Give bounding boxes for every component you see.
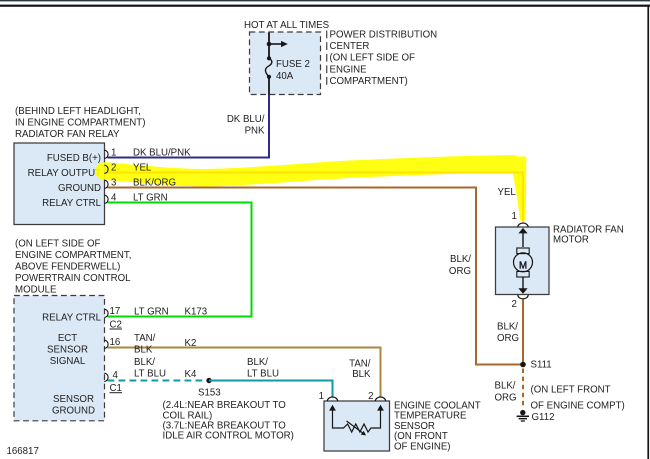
label: S153 breakout note <box>163 400 294 442</box>
svg-text:HOT AT ALL TIMES: HOT AT ALL TIMES <box>244 20 330 31</box>
svg-text:3: 3 <box>111 178 116 189</box>
svg-text:16: 16 <box>110 337 121 348</box>
arrow: feed to other circuits <box>269 41 288 47</box>
label: BLK/ ORG below S111 <box>495 380 517 403</box>
svg-text:FUSE 2: FUSE 2 <box>276 59 310 70</box>
pin 17 of PCM with connector C2 <box>104 306 122 330</box>
svg-text:K2: K2 <box>185 338 197 349</box>
wire: TAN/BLK from PCM pin 16 to ECT sensor pin 2 <box>108 348 381 398</box>
pin 1 of fan motor <box>512 211 529 227</box>
label: RADIATOR FAN MOTOR <box>553 224 624 245</box>
wire: battery feed inside PDC (black) <box>268 33 270 59</box>
label: BLK/ LT BLU right of S153 <box>247 357 279 380</box>
label: ENGINE COOLANT TEMPERATURE SENSOR (ON FRONT OF ENGINE) <box>394 400 481 452</box>
svg-text:17: 17 <box>110 306 121 317</box>
svg-text:40A: 40A <box>276 71 294 82</box>
svg-text:M: M <box>519 260 527 271</box>
svg-text:LT GRN: LT GRN <box>133 193 168 204</box>
svg-text:2: 2 <box>111 163 116 174</box>
relay: radiator fan relay box <box>14 143 105 225</box>
svg-text:IDLE AIR CONTROL MOTOR): IDLE AIR CONTROL MOTOR) <box>163 431 294 442</box>
svg-text:FUSED B(+): FUSED B(+) <box>47 153 101 164</box>
pin 2 of relay <box>104 163 116 174</box>
pin 4 of relay <box>104 193 117 204</box>
svg-text:ORG: ORG <box>497 333 519 344</box>
svg-text:DK BLU/: DK BLU/ <box>227 114 265 125</box>
svg-text:1: 1 <box>512 211 517 222</box>
svg-text:OF ENGINE COMPT): OF ENGINE COMPT) <box>531 400 625 411</box>
ground G112 symbol <box>517 410 529 421</box>
svg-text:YEL: YEL <box>498 187 517 198</box>
svg-text:DK BLU/PNK: DK BLU/PNK <box>133 148 191 159</box>
svg-text:1: 1 <box>111 148 116 159</box>
svg-text:S153: S153 <box>198 387 221 398</box>
svg-text:MODULE: MODULE <box>15 285 57 296</box>
node: splice S153 <box>206 378 211 383</box>
svg-text:166817: 166817 <box>7 446 39 457</box>
pin 2 of ECT sensor <box>368 391 386 402</box>
svg-text:TAN/: TAN/ <box>134 333 156 344</box>
fuse FUSE 2 40A <box>265 56 309 82</box>
highlight annotation: yellow marker over YEL circuit <box>104 157 526 221</box>
svg-text:IN ENGINE COMPARTMENT): IN ENGINE COMPARTMENT) <box>15 118 145 129</box>
svg-text:SENSOR: SENSOR <box>47 345 88 356</box>
svg-text:OF ENGINE): OF ENGINE) <box>394 442 451 453</box>
svg-text:RELAY CTRL: RELAY CTRL <box>42 313 101 324</box>
svg-text:CENTER: CENTER <box>330 41 370 52</box>
svg-text:S111: S111 <box>531 359 552 370</box>
wire: BLK/LT BLU dashed from PCM pin 4 to splice S153 <box>108 380 207 382</box>
fuse box: power distribution center (dashed) <box>250 32 321 95</box>
svg-text:1: 1 <box>319 391 324 402</box>
pin 1 of relay <box>104 148 116 159</box>
svg-text:(ON LEFT SIDE OF: (ON LEFT SIDE OF <box>330 53 415 64</box>
pin 1 of ECT sensor <box>319 391 338 402</box>
svg-text:BLK/: BLK/ <box>450 254 471 265</box>
pin 16 of PCM <box>104 337 120 348</box>
label: BLK/ ORG (vertical run right side) <box>449 254 471 277</box>
svg-text:SIGNAL: SIGNAL <box>50 356 86 367</box>
svg-text:ECT: ECT <box>58 333 77 344</box>
motor: radiator fan motor box <box>496 227 550 295</box>
wire: BLK/LT BLU from S153 to ECT sensor pin 1 <box>209 381 333 398</box>
arrow: variable-resistance arrow through thermistor <box>347 421 367 435</box>
svg-text:(ON LEFT SIDE OF: (ON LEFT SIDE OF <box>15 239 100 250</box>
svg-text:POWER DISTRIBUTION: POWER DISTRIBUTION <box>330 30 438 41</box>
svg-text:GROUND: GROUND <box>58 183 101 194</box>
label: TAN/ BLK K2 at PCM pin 16 <box>134 333 196 356</box>
svg-text:ENGINE: ENGINE <box>330 64 368 75</box>
svg-text:MOTOR: MOTOR <box>553 235 589 246</box>
label: POWER DISTRIBUTION CENTER (ON LEFT SIDE OF ENGINE COMPARTMENT) <box>326 30 437 87</box>
wire: BLK/ORG dashed from S111 to ground G112 <box>522 369 524 410</box>
svg-text:BLK/ORG: BLK/ORG <box>133 178 176 189</box>
svg-text:BLK/: BLK/ <box>247 357 268 368</box>
svg-text:BLK: BLK <box>352 369 371 380</box>
node: B+ junction dot <box>267 42 272 47</box>
svg-text:ABOVE FENDERWELL): ABOVE FENDERWELL) <box>15 262 120 273</box>
node: splice S111 <box>520 362 526 368</box>
sensor: engine coolant temperature sensor box <box>324 401 390 451</box>
svg-text:ORG: ORG <box>495 392 517 403</box>
label: BLK/ ORG between motor and S111 <box>497 322 519 345</box>
svg-text:4: 4 <box>111 193 117 204</box>
label: PCM location header <box>15 239 131 296</box>
svg-text:2: 2 <box>512 299 517 310</box>
svg-text:2: 2 <box>368 391 373 402</box>
svg-text:G112: G112 <box>532 412 555 423</box>
svg-text:BLK/: BLK/ <box>497 322 518 333</box>
label: (ON LEFT FRONT OF ENGINE COMPT) <box>531 384 625 411</box>
wire: BLK/ORG from relay pin 3 to splice S111 <box>108 188 524 365</box>
svg-text:ENGINE COMPARTMENT,: ENGINE COMPARTMENT, <box>15 250 131 261</box>
svg-text:(ON LEFT FRONT: (ON LEFT FRONT <box>531 384 611 395</box>
svg-text:RELAY OUTPUT: RELAY OUTPUT <box>28 168 101 179</box>
module: powertrain control module box (dashed) <box>14 296 105 421</box>
wire: fuse output to PDC box edge (black) <box>268 77 270 95</box>
svg-text:SENSOR: SENSOR <box>53 394 94 405</box>
pin 4 of PCM with connector C1 <box>104 370 122 394</box>
wire: DK BLU/PNK from fuse to relay pin 1 <box>108 95 270 158</box>
svg-text:COMPARTMENT): COMPARTMENT) <box>330 76 408 87</box>
pin 2 of fan motor <box>512 295 529 310</box>
svg-text:RADIATOR FAN RELAY: RADIATOR FAN RELAY <box>15 129 120 140</box>
wire: YEL from relay pin 2 to fan motor pin 1 <box>108 173 524 223</box>
svg-text:LT BLU: LT BLU <box>134 369 166 380</box>
svg-text:BLK/: BLK/ <box>495 380 516 391</box>
svg-text:PNK: PNK <box>245 126 265 137</box>
wire: BLK/ORG from fan motor pin 2 to splice S111 <box>522 300 524 365</box>
svg-text:TAN/: TAN/ <box>349 359 371 370</box>
svg-text:POWERTRAIN CONTROL: POWERTRAIN CONTROL <box>15 273 131 284</box>
label: LT GRN K173 at PCM pin 17 <box>134 307 207 318</box>
svg-text:YEL: YEL <box>133 163 152 174</box>
svg-text:RELAY CTRL: RELAY CTRL <box>42 198 101 209</box>
label: relay location header <box>15 106 145 140</box>
svg-text:BLK: BLK <box>134 345 153 356</box>
svg-text:(BEHIND LEFT HEADLIGHT,: (BEHIND LEFT HEADLIGHT, <box>15 106 141 117</box>
label: TAN/ BLK near ECT pin 2 <box>349 359 371 380</box>
svg-text:ORG: ORG <box>449 266 471 277</box>
svg-text:K173: K173 <box>185 307 208 318</box>
pin 3 of relay <box>104 178 116 189</box>
label: DK BLU/ PNK (vertical run) <box>227 114 265 137</box>
thermistor symbol inside ECT sensor <box>329 405 384 432</box>
label: BLK/ LT BLU K4 at PCM pin 4 <box>134 357 197 380</box>
svg-text:GROUND: GROUND <box>52 406 95 417</box>
svg-text:LT BLU: LT BLU <box>247 369 279 380</box>
svg-text:4: 4 <box>113 370 119 381</box>
svg-text:K4: K4 <box>185 369 197 380</box>
svg-text:BLK/: BLK/ <box>134 357 155 368</box>
wire: LT GRN from relay pin 4 to PCM pin 17 <box>108 203 252 317</box>
svg-text:LT GRN: LT GRN <box>134 307 169 318</box>
motor symbol (M) inside fan motor box <box>514 228 533 294</box>
